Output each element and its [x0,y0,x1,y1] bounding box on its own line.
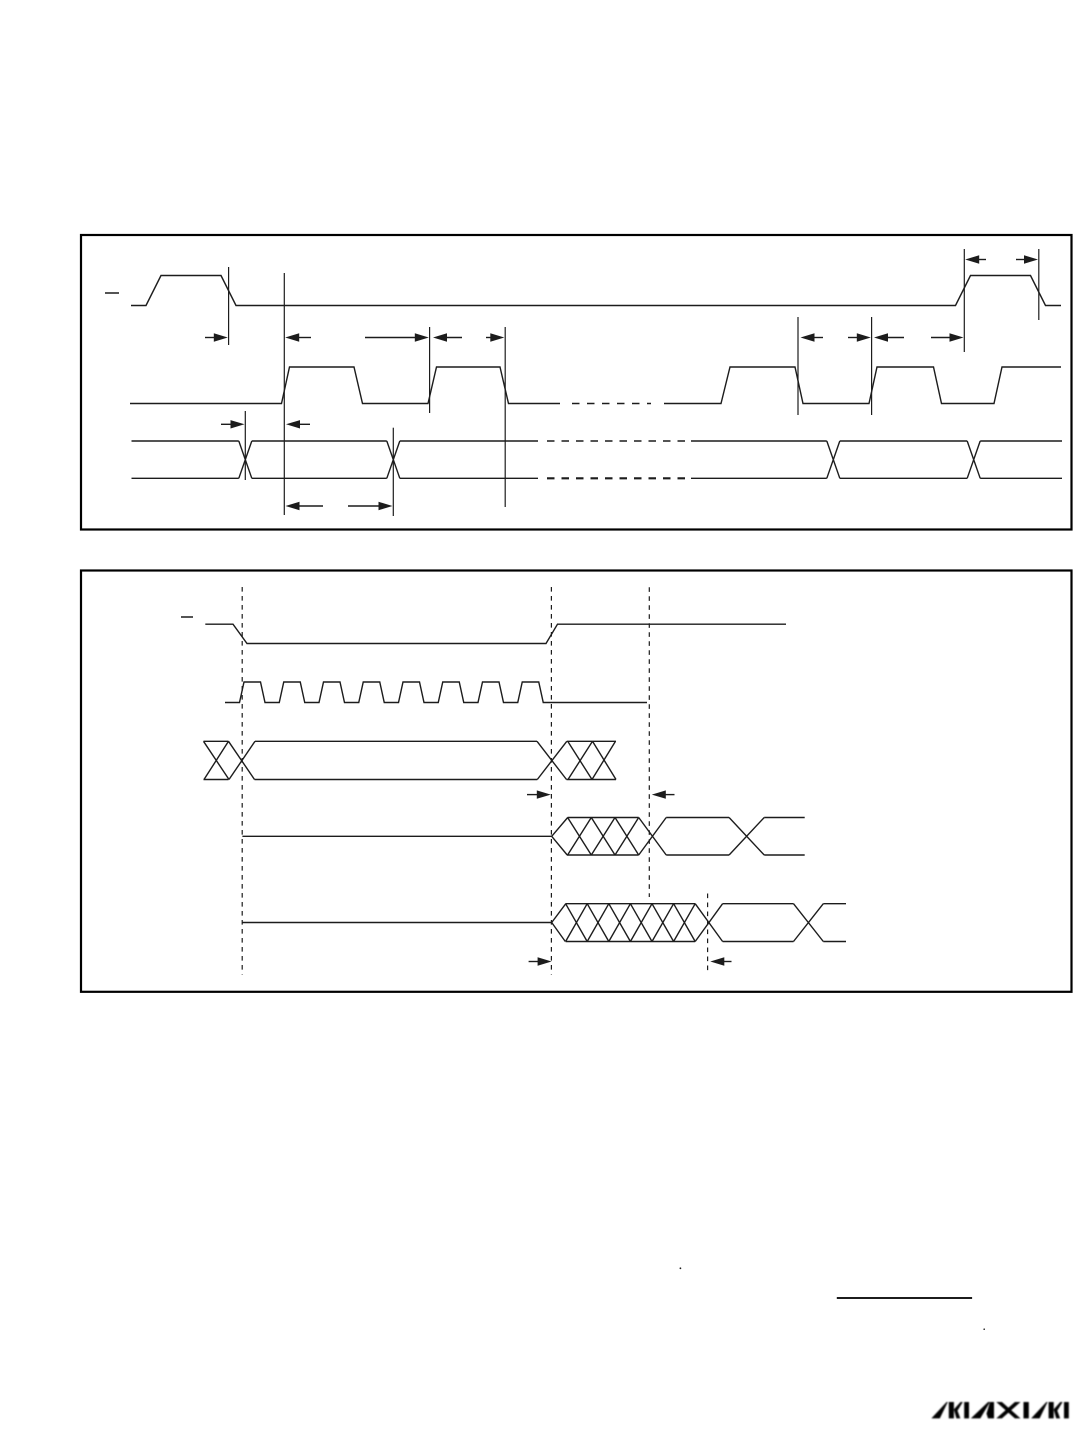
signal CS overline (lower diagram) [181,616,193,618]
dimension arrow tDO right (first output row) [527,790,551,798]
tick line at last SCLK rising edge [871,317,873,415]
dimension arrow tDO left (first output row) [652,790,675,798]
dimension arrow tDIN-period right [348,502,393,510]
figure box: serial interface timing (lower) [81,571,1072,992]
tick line at second SCLK falling edge [504,327,506,507]
bus DIN closing crossing (lower diagram) [537,741,567,779]
tick line at CS rising edge [963,249,965,352]
line DOUT tri-state level (first output row) [242,835,551,837]
stray text dot (period of note text) [680,1267,682,1269]
bus DIN dashed top rail [547,440,688,442]
dimension arrow tCP right [365,333,429,341]
tick line at first SCLK rising edge [283,273,285,515]
bus DOUT next-data crossing (second output row) [794,904,824,942]
waveform SCLK (upper diagram, right solid part) [664,367,1061,404]
bus DOUT valid rails (second output row) [723,904,794,942]
bus DOUT dont-care hatch (first output row) [567,818,639,856]
dimension arrow tDH left [286,420,310,428]
dashed reference line at data-valid point (lower diagram) [648,587,650,897]
waveform SCLK burst (lower diagram) [225,682,647,703]
waveform SCLK dashed continuation [572,403,651,405]
dimension arrow tDO2 left (second output row) [710,957,731,965]
bus DOUT valid rails (first output row) [666,818,729,856]
bus DOUT trailing rails (first output row) [764,818,805,856]
figure box: detailed serial interface timing (upper) [81,235,1072,530]
bus DIN top rail (upper diagram) [132,440,1063,442]
bus DIN valid bottom rail (lower diagram) [255,779,538,781]
bus DOUT hatch-to-valid crossing (first output row) [639,818,667,856]
waveform SCLK (upper diagram, left solid part) [130,367,560,404]
fraction bar / underline in note area [837,1297,972,1299]
dimension arrow tCSS right [205,333,228,341]
tick line at first DIN transition [244,411,246,480]
dimension arrow tCP left [285,333,311,341]
bus DIN transition crossings [239,441,980,478]
tick line at CS falling edge [228,267,230,345]
dimension arrow tCL left [801,333,824,341]
dimension arrow tDO2 right (second output row) [529,957,552,965]
dimension arrow tCH left [433,333,462,341]
dimension arrow tCSW left [965,255,986,263]
bus DOUT hatch-to-valid crossing (second output row) [695,904,722,942]
bus DIN dashed bottom rail [547,477,688,479]
bus DIN leading dont-care hatch (lower diagram) [204,741,256,779]
bus DIN valid top rail (lower diagram) [255,740,537,742]
dimension arrow tDIN-period left [286,502,324,510]
signal CS overline (upper diagram) [105,292,119,294]
tick line at CS final falling edge [1038,249,1040,320]
tick line at last SCLK falling edge [797,317,799,415]
dimension arrow tCSW right [1016,255,1038,263]
bus DOUT trailing rails (second output row) [823,904,846,942]
waveform CS (lower diagram) [205,624,786,643]
dashed reference line at CS rise (lower diagram) [550,587,552,975]
dimension arrow tCH right [486,333,504,341]
dimension arrow tCSH left [874,333,904,341]
bus DOUT opening transition (second output row) [552,904,566,942]
dimension arrow tCSH right [931,333,964,341]
dimension arrow tDS right [221,420,245,428]
dashed reference line at CS fall (lower diagram) [241,587,243,975]
bus DOUT dont-care hatch (second output row) [566,904,696,942]
bus DIN trailing dont-care hatch (lower diagram) [567,741,617,779]
stray text dot (period near page number) [983,1328,985,1330]
dashed reference line at second data-valid point (lower diagram) [707,894,709,972]
line DOUT tri-state level (second output row) [242,922,551,924]
bus DOUT next-data crossing (first output row) [729,818,764,856]
bus DOUT opening transition (first output row) [552,818,568,856]
dimension arrow tCL right [848,333,871,341]
tick line at second SCLK rising edge [429,327,431,413]
tick line at second DIN transition [392,428,394,516]
bus DIN bottom rail (upper diagram) [132,477,1063,479]
waveform CS (upper diagram) [131,276,1061,306]
